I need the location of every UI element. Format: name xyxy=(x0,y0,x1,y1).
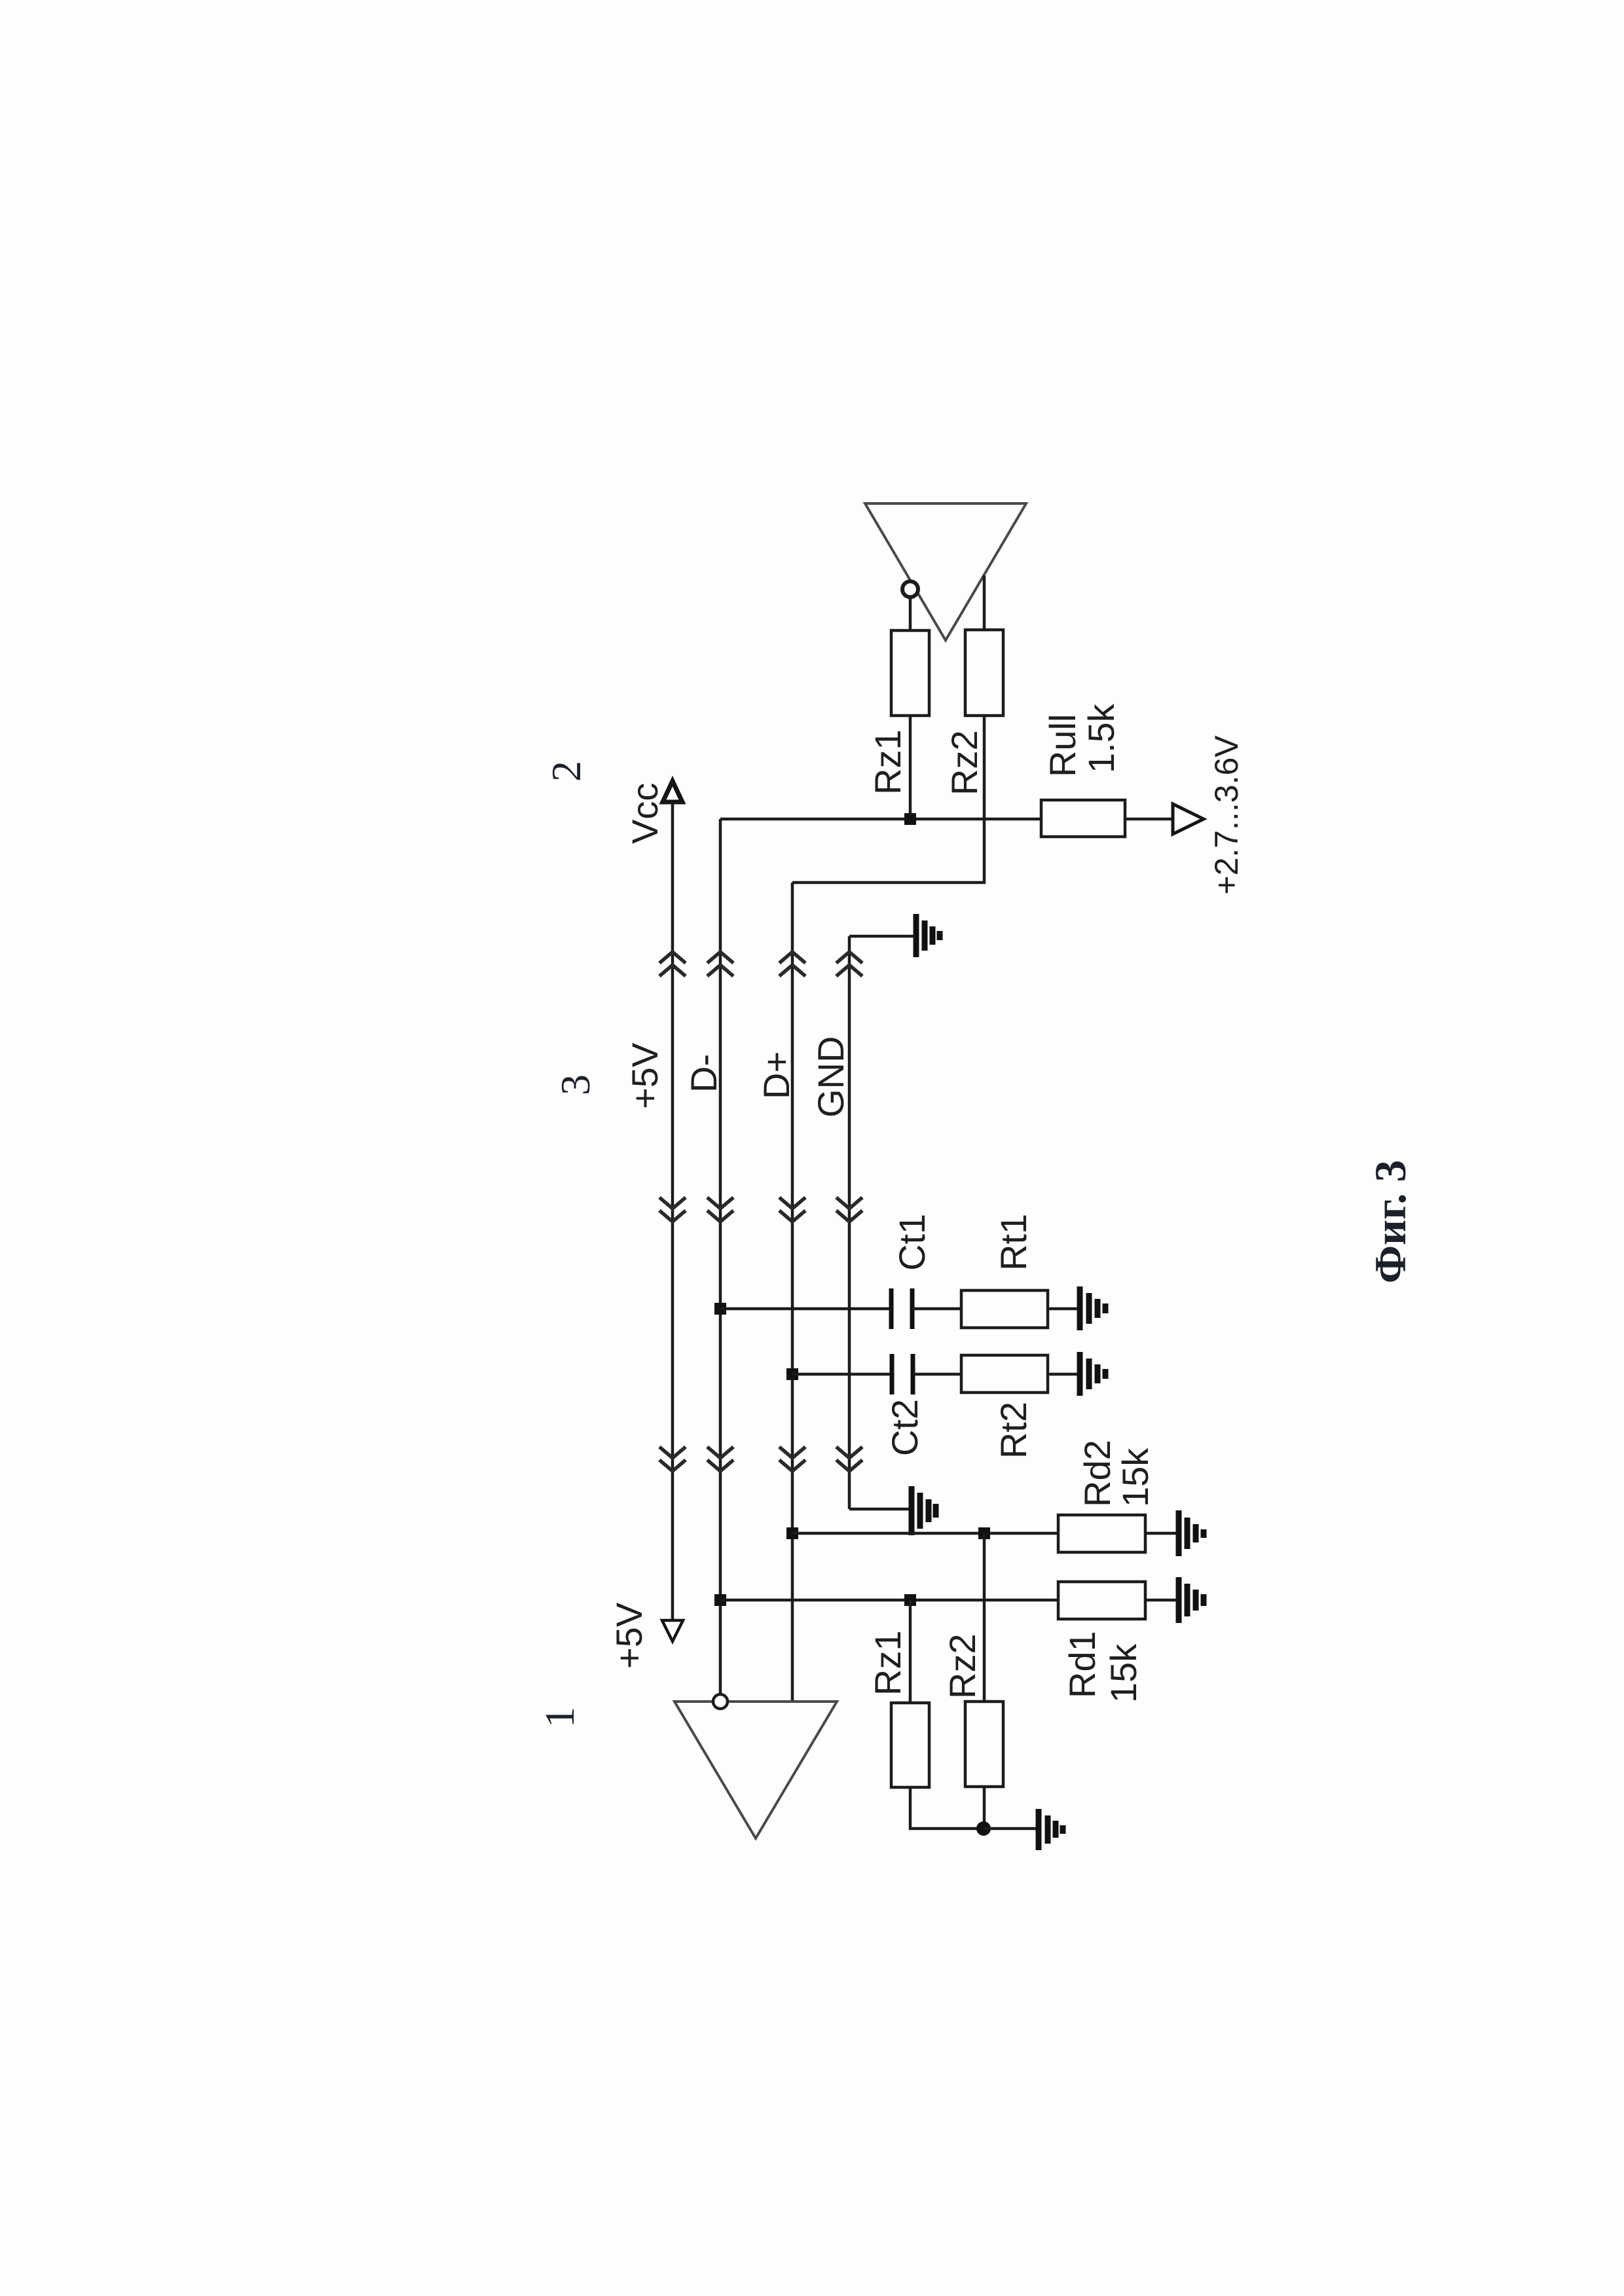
wire Rz1 host to node xyxy=(909,716,912,819)
buffer 1 (device driver triangle) xyxy=(674,1702,837,1838)
junction Rd1 tap on D- xyxy=(714,1594,726,1606)
connector chevrons band 2 on +5V xyxy=(659,1197,686,1222)
wire GND bus xyxy=(848,936,851,1509)
svg-text:+5V: +5V xyxy=(608,1602,650,1669)
svg-text:Фиг. 3: Фиг. 3 xyxy=(1365,1160,1415,1284)
junction Ct1 tap on D- xyxy=(714,1303,726,1315)
wire joint to ground xyxy=(984,1827,1039,1831)
ground (Rt2) xyxy=(1080,1352,1105,1396)
wire Rz2 host to D+ xyxy=(792,716,984,883)
junction Ct2 tap on D+ xyxy=(786,1368,798,1380)
resistor Rd2 xyxy=(1058,1515,1145,1552)
resistor Rz1 (device) xyxy=(891,1703,929,1787)
connector chevrons band 1 on +5V xyxy=(659,952,686,976)
svg-text:1: 1 xyxy=(536,1707,583,1728)
svg-text:D+: D+ xyxy=(756,1051,797,1099)
resistor Rt2 xyxy=(961,1355,1048,1393)
wire D+ to Ct2 xyxy=(792,1373,892,1376)
ground (device Rz joint) xyxy=(1039,1809,1063,1850)
junction Rd2 tap on D+ xyxy=(786,1527,798,1539)
svg-text:3: 3 xyxy=(552,1074,599,1095)
wire Rd1 drop xyxy=(720,1599,1058,1602)
node +2.7...3.6V arrow xyxy=(1173,804,1204,834)
resistor Rt1 xyxy=(961,1290,1048,1328)
wire D- to Ct1 xyxy=(720,1307,891,1311)
wire Rd1 to ground xyxy=(1145,1599,1179,1602)
connector chevrons band 1 on D+ xyxy=(779,952,805,976)
ground (Rd1) xyxy=(1179,1577,1204,1623)
resistor Rull xyxy=(1041,800,1125,837)
buffer 2 (host driver triangle) xyxy=(865,503,1026,640)
wire bubble to Rz1 host xyxy=(909,598,912,630)
connector chevrons band 3 on +5V xyxy=(659,1447,686,1471)
node Vcc arrow (host end of +5V) xyxy=(663,781,682,802)
svg-text:15k: 15k xyxy=(1103,1643,1144,1703)
connector chevrons band 1 on D- xyxy=(707,952,733,976)
wire Rd2 to ground xyxy=(1145,1532,1179,1535)
svg-text:D-: D- xyxy=(683,1054,724,1093)
svg-text:GND: GND xyxy=(810,1036,851,1118)
ground (host GND) xyxy=(849,914,940,957)
junction Rz2 tap on Rd2 drop xyxy=(978,1527,990,1539)
svg-text:Rull: Rull xyxy=(1042,714,1083,777)
wire Rd2 drop xyxy=(792,1532,1058,1535)
resistor Rz2 (host) xyxy=(965,630,1003,716)
connector chevrons band 3 on D+ xyxy=(779,1447,805,1471)
svg-text:Rz2: Rz2 xyxy=(942,1633,983,1699)
svg-text:Ct1: Ct1 xyxy=(891,1214,932,1271)
svg-text:Vcc: Vcc xyxy=(624,783,665,844)
svg-text:Rd1: Rd1 xyxy=(1061,1631,1103,1698)
inverter bubble on buffer 2 xyxy=(902,581,918,597)
resistor Rd1 xyxy=(1058,1582,1145,1619)
wire Rt2 to ground xyxy=(1048,1373,1080,1376)
connector chevrons band 2 on D- xyxy=(707,1197,733,1222)
inverter bubble on buffer 1 xyxy=(713,1694,728,1709)
wire Rt1 to ground xyxy=(1048,1307,1080,1311)
connector chevrons band 3 on GND xyxy=(836,1447,862,1471)
wire Ct2 to Rt2 xyxy=(913,1373,961,1376)
svg-text:+5V: +5V xyxy=(624,1042,665,1109)
connector chevrons band 2 on GND xyxy=(836,1197,862,1222)
wire Rz1 device to joint xyxy=(910,1787,984,1829)
svg-text:+2.7...3.6V: +2.7...3.6V xyxy=(1208,735,1245,895)
svg-text:Rz1: Rz1 xyxy=(867,729,908,795)
svg-text:2: 2 xyxy=(543,761,589,782)
ground (Rd2) xyxy=(1179,1510,1204,1556)
resistor Rz1 (host) xyxy=(891,630,929,716)
resistor Rz2 (device) xyxy=(965,1702,1003,1787)
svg-text:Rz2: Rz2 xyxy=(944,730,985,795)
svg-text:1.5k: 1.5k xyxy=(1080,703,1122,773)
connector chevrons band 1 on GND xyxy=(836,952,862,976)
wire D- bus xyxy=(719,819,722,1694)
svg-text:Rt2: Rt2 xyxy=(993,1402,1034,1459)
svg-text:Ct2: Ct2 xyxy=(884,1399,925,1456)
junction Rz1 tap on Rd1 drop xyxy=(904,1594,916,1606)
connector chevrons band 2 on D+ xyxy=(779,1197,805,1222)
capacitor Ct2 xyxy=(892,1354,913,1394)
wire D+ bus xyxy=(791,883,794,1702)
ground (device GND) xyxy=(849,1486,936,1535)
connector chevrons band 3 on D- xyxy=(707,1447,733,1471)
junction Rz joint (device) xyxy=(976,1821,991,1836)
wire Ct1 to Rt1 xyxy=(912,1307,961,1311)
svg-text:15k: 15k xyxy=(1115,1448,1156,1507)
node +5V arrow (device end of +5V) xyxy=(662,1620,683,1641)
wire Rz2 device tap xyxy=(983,1533,986,1702)
capacitor Ct1 xyxy=(891,1288,912,1329)
wire Rull to arrow xyxy=(1125,818,1173,821)
svg-text:Rt1: Rt1 xyxy=(993,1214,1034,1271)
svg-text:Rz1: Rz1 xyxy=(867,1630,908,1696)
ground (Rt1) xyxy=(1080,1286,1105,1330)
wire Rz1 device tap xyxy=(909,1600,912,1703)
wire Rz2 device to joint xyxy=(983,1787,986,1829)
wire buffer2 to Rz2 host xyxy=(983,575,986,630)
wire host D- node vertical xyxy=(720,818,1041,821)
svg-text:Rd2: Rd2 xyxy=(1077,1440,1118,1507)
junction host D- node xyxy=(904,813,916,825)
wire +5V bus xyxy=(671,801,674,1622)
